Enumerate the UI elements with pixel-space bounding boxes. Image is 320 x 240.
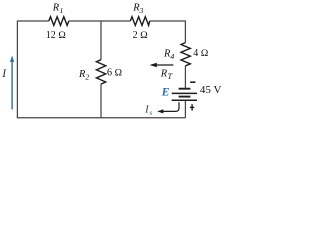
- svg-text:12 Ω: 12 Ω: [46, 30, 67, 41]
- svg-text:E: E: [161, 87, 170, 99]
- svg-text:R2: R2: [78, 69, 89, 82]
- svg-text:4 Ω: 4 Ω: [193, 48, 209, 59]
- svg-text:R1: R1: [52, 3, 64, 16]
- svg-text:2 Ω: 2 Ω: [133, 30, 149, 41]
- svg-text:Is: Is: [144, 105, 152, 118]
- svg-text:6 Ω: 6 Ω: [107, 68, 123, 79]
- svg-text:45 V: 45 V: [200, 84, 222, 96]
- svg-text:I: I: [1, 68, 7, 80]
- svg-text:R3: R3: [132, 3, 143, 16]
- svg-text:RT: RT: [160, 68, 174, 81]
- svg-text:R4: R4: [163, 49, 174, 62]
